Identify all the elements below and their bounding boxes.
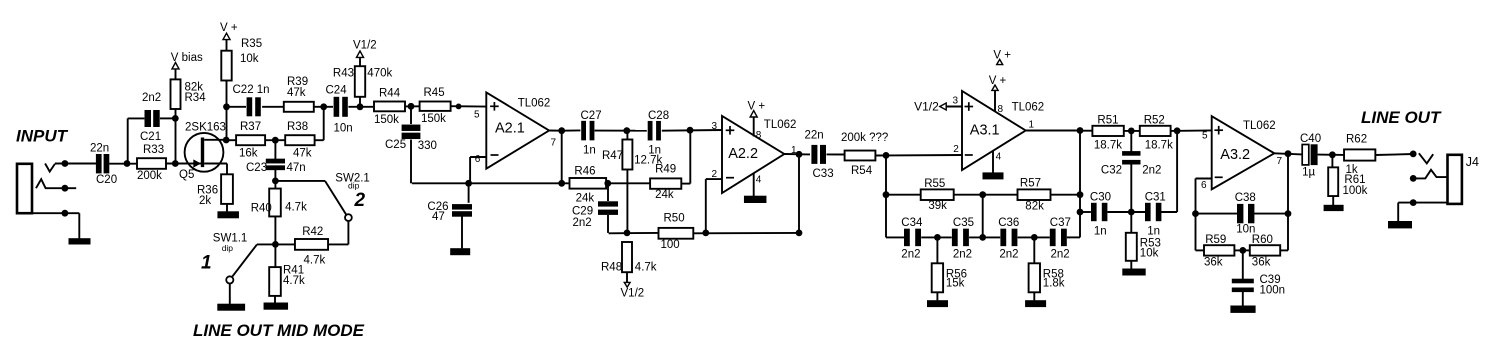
svg-text:8: 8 [998, 104, 1004, 115]
svg-text:R57: R57 [1020, 178, 1041, 190]
svg-text:5: 5 [1202, 131, 1208, 142]
svg-text:dip: dip [222, 243, 234, 253]
svg-text:15k: 15k [946, 278, 965, 290]
svg-text:R46: R46 [574, 166, 595, 178]
svg-text:R50: R50 [664, 213, 685, 225]
svg-text:1µ: 1µ [1302, 167, 1315, 179]
svg-text:V1/2: V1/2 [353, 40, 377, 52]
svg-text:1n: 1n [1094, 226, 1107, 238]
svg-text:150k: 150k [374, 114, 399, 126]
svg-text:R37: R37 [240, 121, 261, 133]
svg-text:2n2: 2n2 [1051, 249, 1070, 261]
svg-text:R62: R62 [1346, 133, 1367, 145]
svg-text:2: 2 [354, 190, 366, 211]
svg-text:4.7k: 4.7k [304, 254, 326, 266]
svg-text:4: 4 [996, 152, 1002, 163]
svg-text:7: 7 [551, 138, 557, 149]
svg-text:R60: R60 [1252, 234, 1273, 246]
svg-text:2k: 2k [199, 195, 211, 207]
svg-text:330: 330 [418, 140, 437, 152]
svg-text:INPUT: INPUT [16, 127, 69, 146]
svg-text:C33: C33 [813, 168, 834, 180]
svg-text:TL062: TL062 [518, 98, 551, 110]
svg-text:10n: 10n [334, 123, 353, 135]
svg-text:4: 4 [756, 175, 762, 186]
svg-text:10k: 10k [240, 53, 259, 65]
svg-text:V1/2: V1/2 [914, 100, 939, 114]
svg-text:4.7k: 4.7k [285, 202, 307, 214]
svg-text:2SK163: 2SK163 [185, 122, 226, 134]
svg-text:1.8k: 1.8k [1043, 278, 1065, 290]
svg-text:82k: 82k [1025, 201, 1044, 213]
svg-text:C21: C21 [140, 131, 161, 143]
svg-text:J4: J4 [1466, 155, 1479, 169]
svg-text:100: 100 [661, 239, 680, 251]
svg-text:C40: C40 [1300, 133, 1321, 145]
svg-text:R44: R44 [379, 87, 401, 99]
svg-text:R34: R34 [185, 92, 207, 104]
svg-text:47n: 47n [287, 162, 306, 174]
svg-text:LINE OUT: LINE OUT [1361, 108, 1442, 127]
svg-text:2n2: 2n2 [1142, 165, 1161, 177]
svg-text:200k ???: 200k ??? [841, 132, 888, 144]
svg-text:C38: C38 [1235, 192, 1256, 204]
svg-text:C28: C28 [648, 110, 669, 122]
svg-text:V bias: V bias [171, 52, 203, 64]
svg-text:V +: V + [748, 101, 766, 113]
svg-text:2n2: 2n2 [573, 217, 592, 229]
svg-text:R47: R47 [602, 150, 623, 162]
svg-text:R40: R40 [251, 203, 272, 215]
svg-text:18.7k: 18.7k [1145, 140, 1173, 152]
svg-text:3: 3 [952, 95, 958, 106]
svg-text:1n: 1n [1147, 226, 1160, 238]
svg-text:6: 6 [1201, 180, 1207, 191]
svg-text:47k: 47k [287, 87, 306, 99]
svg-text:2n2: 2n2 [901, 249, 920, 261]
svg-text:R43: R43 [333, 68, 354, 80]
svg-text:R55: R55 [924, 178, 945, 190]
svg-text:7: 7 [1277, 156, 1283, 167]
svg-text:C34: C34 [901, 217, 923, 229]
svg-text:4.7k: 4.7k [635, 262, 657, 274]
svg-text:C35: C35 [953, 217, 974, 229]
svg-text:A3.1: A3.1 [970, 123, 1000, 139]
svg-text:R45: R45 [424, 87, 445, 99]
svg-text:C22 1n: C22 1n [233, 84, 270, 96]
svg-text:TL062: TL062 [764, 119, 797, 131]
svg-text:R59: R59 [1205, 234, 1226, 246]
svg-text:16k: 16k [239, 147, 258, 159]
svg-text:R52: R52 [1144, 115, 1165, 127]
svg-text:TL062: TL062 [1012, 102, 1045, 114]
svg-text:8: 8 [756, 130, 762, 141]
svg-text:V +: V + [989, 75, 1007, 87]
svg-text:C31: C31 [1145, 192, 1166, 204]
svg-text:V1/2: V1/2 [621, 288, 645, 300]
svg-text:2n2: 2n2 [142, 92, 161, 104]
svg-text:1: 1 [1029, 120, 1035, 131]
svg-text:36k: 36k [1204, 257, 1223, 269]
svg-text:R38: R38 [287, 121, 308, 133]
svg-text:Q5: Q5 [179, 169, 194, 181]
svg-text:24k: 24k [655, 189, 674, 201]
svg-text:C30: C30 [1090, 192, 1111, 204]
svg-text:R54: R54 [851, 165, 873, 177]
svg-text:24k: 24k [576, 193, 595, 205]
svg-text:R49: R49 [655, 164, 676, 176]
svg-text:47: 47 [432, 211, 445, 223]
svg-text:18.7k: 18.7k [1094, 140, 1122, 152]
svg-text:TL062: TL062 [1243, 120, 1276, 132]
svg-text:3: 3 [711, 121, 717, 132]
svg-text:2n2: 2n2 [953, 249, 972, 261]
svg-text:C25: C25 [385, 139, 406, 151]
svg-text:2: 2 [953, 144, 959, 155]
svg-text:39k: 39k [928, 200, 947, 212]
svg-text:4.7k: 4.7k [283, 275, 305, 287]
svg-text:470k: 470k [367, 68, 392, 80]
svg-text:C20: C20 [96, 174, 117, 186]
svg-text:22n: 22n [90, 143, 109, 155]
svg-text:150k: 150k [421, 113, 446, 125]
svg-text:R33: R33 [143, 144, 164, 156]
svg-text:C27: C27 [581, 110, 602, 122]
svg-text:A3.2: A3.2 [1220, 147, 1250, 163]
svg-text:10k: 10k [1140, 248, 1159, 260]
svg-text:200k: 200k [137, 170, 162, 182]
svg-text:A2.1: A2.1 [495, 121, 525, 137]
svg-text:C37: C37 [1050, 217, 1071, 229]
svg-text:6: 6 [475, 154, 481, 165]
svg-text:R35: R35 [241, 38, 262, 50]
svg-text:R42: R42 [302, 226, 323, 238]
svg-text:C24: C24 [326, 85, 348, 97]
svg-text:47k: 47k [293, 147, 312, 159]
svg-text:R48: R48 [601, 262, 622, 274]
svg-text:C23: C23 [246, 162, 267, 174]
svg-text:36k: 36k [1252, 257, 1271, 269]
svg-text:R51: R51 [1097, 115, 1118, 127]
svg-text:5: 5 [474, 110, 480, 121]
svg-text:1: 1 [201, 253, 212, 274]
svg-text:LINE OUT MID MODE: LINE OUT MID MODE [193, 321, 365, 340]
svg-text:V +: V + [220, 22, 238, 34]
svg-text:C29: C29 [572, 206, 593, 218]
svg-text:C32: C32 [1101, 165, 1122, 177]
svg-text:22n: 22n [805, 130, 824, 142]
svg-text:2n2: 2n2 [999, 249, 1018, 261]
svg-text:100k: 100k [1343, 185, 1368, 197]
svg-text:100n: 100n [1260, 285, 1286, 297]
svg-text:A2.2: A2.2 [728, 146, 758, 162]
svg-text:C36: C36 [998, 217, 1019, 229]
svg-text:V +: V + [993, 50, 1011, 62]
svg-text:1n: 1n [583, 144, 596, 156]
